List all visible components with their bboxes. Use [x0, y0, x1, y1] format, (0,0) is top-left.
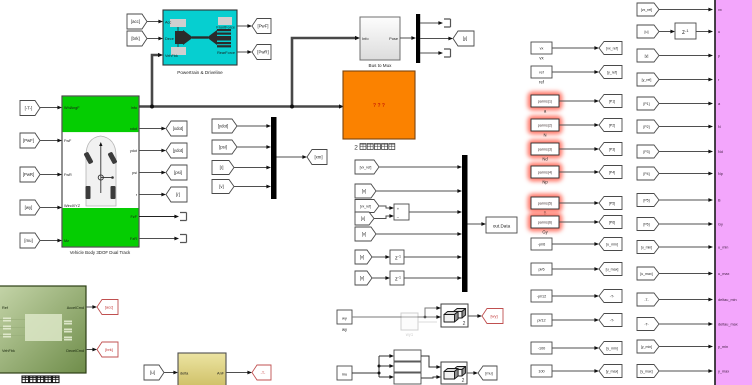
svg-text:xdot: xdot — [130, 127, 138, 131]
wire ydot — [139, 150, 162, 152]
svg-text:u_max: u_max — [718, 272, 729, 276]
from [acc] — [127, 14, 147, 29]
sum block — [394, 204, 409, 220]
unit delay z2 — [390, 271, 404, 285]
wire steer to WhlAngF — [40, 107, 58, 109]
svg-text:[wy]: [wy] — [490, 314, 497, 319]
wire demux out3 — [420, 52, 439, 54]
wire mu to rect3 — [379, 376, 390, 378]
svg-text:[acc]: [acc] — [131, 19, 140, 24]
svg-text:Nd: Nd — [542, 157, 548, 162]
svg-text:[brk]: [brk] — [131, 36, 139, 41]
block -pi/6 — [531, 238, 552, 250]
from [P3] r — [637, 145, 659, 158]
svg-text:Nd: Nd — [718, 150, 723, 154]
unit delay z1 — [390, 250, 404, 264]
wire to mux2 r2 — [376, 190, 458, 192]
terminator T4 — [180, 235, 187, 243]
svg-text:[brk]: [brk] — [105, 347, 113, 352]
block vx — [531, 42, 552, 61]
svg-text:2: 2 — [462, 378, 465, 384]
from [mu] — [20, 233, 40, 248]
wire v to z2 — [372, 277, 386, 279]
svg-text:VehFbk: VehFbk — [165, 54, 178, 58]
svg-text:parms(3): parms(3) — [538, 148, 552, 152]
wire [P3] to port Nd — [659, 151, 709, 153]
from [u_min] r — [637, 241, 659, 254]
svg-text:[xdot]: [xdot] — [173, 126, 184, 131]
block parms(2) — [528, 116, 563, 138]
goto [P3] — [599, 143, 622, 156]
wire vx to [vx_ref] — [552, 47, 595, 49]
goto [y] — [453, 31, 474, 46]
svg-text:Gy: Gy — [542, 230, 548, 235]
from [vx_ref] r — [637, 3, 659, 16]
bus wire branch to VehFbk — [152, 55, 159, 107]
svg-text:[P1]: [P1] — [609, 100, 615, 104]
from [y_ref] r — [637, 73, 659, 86]
wire v to mux1 — [234, 186, 267, 188]
svg-text:[r]: [r] — [176, 192, 180, 197]
svg-text:[wy]: [wy] — [25, 205, 33, 210]
junction dot 2 — [290, 105, 294, 109]
wire mux1 to xm — [277, 156, 304, 158]
label longitudinal controller (CJK) — [22, 376, 59, 383]
wire parms(5) to [P5] — [559, 202, 595, 204]
svg-text:[vx_ref]: [vx_ref] — [606, 47, 618, 51]
wire concat1 to wy goto — [468, 315, 478, 317]
svg-text:FzR: FzR — [130, 237, 137, 241]
goto [r] — [166, 187, 187, 202]
from [v] m4 — [355, 212, 374, 225]
svg-text:[r]: [r] — [220, 165, 224, 170]
svg-text:Np: Np — [718, 172, 723, 176]
svg-text:[y]: [y] — [463, 36, 468, 41]
from [wy] — [20, 200, 40, 215]
junction dot 1 — [150, 105, 154, 109]
block MPC (magenta) — [715, 0, 752, 385]
concat block 2 — [441, 362, 467, 384]
svg-text:vx: vx — [540, 47, 544, 51]
goto [brk] red — [97, 342, 118, 357]
goto [y_ref] — [599, 66, 622, 79]
wire [P2] to port N — [659, 126, 709, 128]
terminator T3 — [180, 213, 187, 221]
from [v] m6 — [355, 250, 372, 264]
svg-text:[P5]: [P5] — [643, 199, 649, 203]
wire pi/6 to [u_max] — [552, 268, 595, 270]
block ref — [531, 66, 552, 85]
subsystem Powertrain & Driveline — [163, 10, 237, 65]
svg-text:[vx_ref]: [vx_ref] — [360, 166, 372, 170]
svg-text:WhlAngF: WhlAngF — [64, 106, 80, 110]
svg-text:[y_min]: [y_min] — [641, 345, 652, 349]
svg-text:parms(5): parms(5) — [538, 202, 552, 206]
svg-text:AccelCmd: AccelCmd — [67, 306, 84, 310]
from [u] 2 — [144, 365, 164, 380]
from [y_max] r — [637, 365, 659, 378]
goto [psi] — [166, 165, 187, 180]
wire parms(1) to [P1] — [559, 100, 595, 102]
wire [P6] to port Gy — [659, 223, 709, 225]
concat block 1 — [441, 304, 468, 327]
goto -T- — [599, 314, 622, 327]
svg-text:Mz: Mz — [64, 239, 69, 243]
wire mu to Mz — [40, 240, 58, 242]
svg-text:Bus to Mux: Bus to Mux — [369, 63, 393, 68]
wire -100 to [y_min] — [552, 347, 595, 349]
block 2dof vehicle (orange) — [343, 71, 415, 139]
constant wy — [337, 310, 352, 324]
wire ref to [y_ref] — [552, 71, 595, 73]
from [v] m2 — [355, 184, 376, 198]
goto [xdot] — [166, 121, 187, 136]
block steering map (tan) — [178, 353, 226, 385]
goto [wy] red — [482, 309, 503, 324]
wire mux2 to outData — [468, 223, 483, 225]
svg-text:delta: delta — [180, 371, 189, 375]
block parms(1) — [528, 92, 563, 114]
terminator T2 — [444, 49, 451, 57]
block parms(4) — [528, 163, 563, 185]
ghost block wy1 — [401, 313, 437, 337]
from [ydot] 2 — [212, 119, 237, 133]
svg-text:DecelCmd: DecelCmd — [66, 349, 84, 353]
wire r to mux1 — [234, 167, 267, 169]
svg-text:N: N — [718, 125, 721, 129]
svg-text:[vx_ref]: [vx_ref] — [360, 205, 371, 209]
goto [u_min] — [599, 238, 622, 251]
svg-text:FwR: FwR — [64, 173, 72, 177]
from [u_max] r — [637, 267, 659, 280]
svg-text:Acc: Acc — [165, 20, 171, 24]
from -T- r — [637, 293, 659, 306]
goto [P1] — [599, 95, 622, 108]
svg-text:[u_max]: [u_max] — [606, 268, 619, 272]
svg-text:[v]: [v] — [362, 189, 367, 194]
svg-text:y_max: y_max — [718, 370, 729, 374]
wire -pi/12 to -T- — [552, 295, 595, 297]
wire parms(3) to [P3] — [559, 148, 595, 150]
wire u to z3 — [659, 31, 671, 33]
from [P1] r — [637, 97, 659, 110]
svg-text:[PwF]: [PwF] — [258, 24, 269, 29]
svg-text:WindXYZ: WindXYZ — [64, 204, 81, 208]
svg-text:[PwR]: [PwR] — [257, 50, 268, 55]
wire mu trunk — [352, 372, 379, 374]
svg-text:parms(4): parms(4) — [538, 171, 552, 175]
wire v to sum — [374, 216, 390, 219]
block -pi/12 — [531, 290, 552, 302]
wire PwR to FwR — [40, 174, 58, 176]
svg-text:[ydot]: [ydot] — [218, 124, 229, 129]
svg-text:[u_min]: [u_min] — [606, 243, 618, 247]
goto -T- — [599, 290, 622, 303]
svg-text:[xm]: [xm] — [314, 155, 322, 160]
svg-text:deltau_max: deltau_max — [718, 323, 738, 327]
wire Pose to demux — [400, 37, 412, 39]
from [P4] r — [637, 167, 659, 180]
wire [P4] to port Np — [659, 173, 709, 175]
svg-text:[v]: [v] — [360, 276, 365, 281]
goto [PwF] — [252, 19, 271, 34]
svg-text:[vx_ref]: [vx_ref] — [641, 8, 653, 12]
svg-text:[v]: [v] — [362, 232, 367, 237]
svg-text:[PwF]: [PwF] — [23, 138, 34, 143]
svg-text:vx: vx — [718, 8, 722, 12]
goto [P6] — [599, 216, 622, 229]
svg-text:ydot: ydot — [130, 149, 138, 153]
from [P5] r — [637, 194, 659, 207]
svg-text:[P5]: [P5] — [609, 202, 615, 206]
from [psi] 2 — [212, 140, 237, 154]
wire psi to mux1 — [237, 146, 267, 148]
wire RearForce to PwR — [237, 51, 248, 53]
svg-text:[P2]: [P2] — [609, 124, 615, 128]
block pi/6 — [531, 263, 552, 275]
svg-text:u: u — [718, 30, 720, 34]
svg-text:[y]: [y] — [645, 54, 649, 58]
junction dot mu2 — [378, 372, 381, 375]
wire z3 to port u — [696, 31, 709, 33]
wire [P1] to port a — [659, 103, 709, 105]
svg-text:[y_max]: [y_max] — [640, 370, 652, 374]
wire z2 to mux2 — [404, 277, 458, 279]
svg-text:Np: Np — [542, 180, 548, 185]
svg-text:[P3]: [P3] — [609, 148, 615, 152]
from -T- r — [637, 318, 659, 331]
svg-text:out.Data: out.Data — [493, 223, 511, 228]
wire [y] to port y — [659, 55, 709, 57]
wire rect1 to concat2 — [421, 356, 437, 367]
svg-text:FzF: FzF — [130, 215, 137, 219]
variant rect 1 — [394, 350, 421, 361]
svg-text:N: N — [543, 133, 546, 138]
wire brk to Powertrain — [147, 38, 159, 40]
svg-text:u_min: u_min — [718, 246, 728, 250]
from [-T-] steer — [20, 101, 40, 116]
goto [xm] — [307, 150, 327, 165]
svg-text:deltau_min: deltau_min — [718, 298, 737, 302]
from [u] r — [637, 25, 659, 38]
goto [acc] red — [97, 300, 118, 315]
svg-text:-pi/12: -pi/12 — [537, 295, 547, 299]
svg-text:parms(2): parms(2) — [538, 124, 552, 128]
svg-text:2: 2 — [463, 321, 466, 327]
svg-text:psi: psi — [132, 171, 137, 175]
wire [y_max] to port y_max — [659, 370, 709, 372]
junction dot mu1 — [378, 365, 381, 368]
svg-text:[P4]: [P4] — [609, 171, 615, 175]
svg-text:[v]: [v] — [219, 184, 224, 189]
svg-text:Info: Info — [131, 106, 137, 110]
svg-text:[psi]: [psi] — [174, 170, 182, 175]
svg-text:wy1: wy1 — [406, 332, 414, 337]
wire concat2 to mu goto — [467, 372, 474, 374]
goto [P4] — [599, 166, 622, 179]
wire acc to Powertrain — [147, 21, 159, 23]
wire sum to mux2 — [409, 211, 458, 213]
from [brk] — [127, 31, 147, 46]
from [v] — [212, 180, 234, 194]
wire [y_min] to port y_min — [659, 346, 709, 348]
svg-text:[P6]: [P6] — [609, 221, 615, 225]
svg-text:[P2]: [P2] — [643, 125, 649, 129]
block parms(5) — [528, 194, 563, 216]
wire psi — [139, 172, 162, 174]
wire FzR — [139, 238, 175, 240]
svg-text:Powertrain & Driveline: Powertrain & Driveline — [177, 70, 223, 75]
junction dot wy — [424, 316, 427, 319]
svg-text:FwF: FwF — [64, 139, 72, 143]
svg-text:ref: ref — [539, 80, 545, 85]
wire parms(6) to [P6] — [559, 221, 595, 223]
wire wy to concat1 — [352, 316, 437, 318]
svg-text:[u]: [u] — [150, 370, 155, 375]
from [v] m5 — [355, 227, 376, 241]
block parms(3) — [528, 140, 563, 162]
svg-text:[P6]: [P6] — [643, 223, 649, 227]
svg-text:[y_ref]: [y_ref] — [642, 78, 652, 82]
mux bar 2 — [462, 155, 468, 292]
svg-text:Dece: Dece — [165, 37, 174, 41]
wire wy to WindXYZ — [40, 207, 58, 209]
svg-text:[P3]: [P3] — [643, 150, 649, 154]
wire [y_ref] to port r — [659, 79, 709, 81]
svg-text:? ? ?: ? ? ? — [373, 103, 385, 109]
svg-text:[mu]: [mu] — [24, 238, 32, 243]
variant rect 3 — [394, 373, 421, 384]
svg-text:VehFbk: VehFbk — [2, 349, 15, 353]
wire mu to rect2 — [379, 365, 390, 367]
svg-text:[y_ref]: [y_ref] — [607, 71, 617, 75]
svg-text:y_min: y_min — [718, 345, 728, 349]
wire DecelCmd to brk — [86, 349, 93, 351]
wire vxref to sum — [379, 206, 390, 208]
wire to mux2 r1 — [379, 166, 458, 168]
wire -T- to port deltau_min — [659, 299, 709, 301]
svg-text:100: 100 — [538, 370, 544, 374]
from [y] r — [637, 49, 659, 62]
from [P6] r — [637, 218, 659, 231]
from [PwF] 2 — [20, 133, 40, 148]
terminator T1 — [444, 19, 451, 27]
from [v] m7 — [355, 271, 372, 285]
svg-text:[y_max]: [y_max] — [606, 370, 619, 374]
svg-text:AnF: AnF — [217, 371, 225, 375]
goto [u_max] — [599, 263, 622, 276]
unit delay z3 — [675, 23, 696, 39]
svg-text:Pose: Pose — [389, 36, 398, 41]
wire to mux2 r4 — [376, 233, 458, 235]
from [r] 2 — [212, 161, 234, 175]
svg-text:[u]: [u] — [645, 30, 649, 34]
wire demux out1 — [420, 22, 439, 24]
from [y_min] r — [637, 340, 659, 353]
subsystem longitudinal controller — [0, 286, 86, 373]
from [P2] r — [637, 120, 659, 133]
from [PwR] 2 — [20, 167, 40, 182]
bus wire branch to BusToMux — [292, 38, 356, 107]
constant mu — [337, 366, 352, 380]
svg-text:[u_min]: [u_min] — [641, 246, 653, 250]
wire ydot to mux1 — [237, 125, 267, 127]
svg-text:[-T-]: [-T-] — [25, 106, 33, 111]
goto [P5] — [599, 197, 622, 210]
wire PwF to FwF — [40, 140, 58, 142]
svg-text:Vehicle Body 3DOF Dual Track: Vehicle Body 3DOF Dual Track — [70, 250, 131, 255]
goto [vx_ref] — [599, 42, 622, 55]
wire FrontForce to PwF — [237, 25, 248, 27]
wire mu to rect1 — [379, 355, 390, 357]
svg-text:y: y — [718, 54, 720, 58]
wire rect3 to concat2 — [421, 377, 437, 378]
wire xdot — [139, 128, 162, 130]
svg-text:2: 2 — [354, 145, 358, 152]
svg-text:[u_max]: [u_max] — [640, 272, 652, 276]
wire demux out2 — [420, 38, 449, 40]
from [vx_ref] m3 — [355, 200, 379, 213]
svg-text:[mu]: [mu] — [485, 372, 492, 376]
svg-text:[PwR]: [PwR] — [23, 172, 34, 177]
svg-text:Info: Info — [362, 36, 369, 41]
demux bar top — [416, 14, 420, 63]
svg-text:parms(6): parms(6) — [538, 221, 552, 225]
wire [u_max] to port u_max — [659, 273, 709, 275]
goto [y_min] — [599, 342, 622, 355]
wire wy branch up — [425, 308, 437, 317]
block 100 — [531, 365, 552, 377]
wire u to delta — [164, 372, 174, 374]
wire AnF to red goto — [226, 372, 248, 374]
svg-text:pi/12: pi/12 — [537, 319, 545, 323]
from [vx_ref] m1 — [355, 160, 379, 174]
svg-text:[y_min]: [y_min] — [606, 347, 618, 351]
svg-text:RearForce: RearForce — [217, 51, 235, 55]
wire r — [139, 194, 162, 196]
goto [mu] 2 — [478, 366, 497, 380]
goto [ydot] — [166, 143, 187, 158]
svg-text:[ydot]: [ydot] — [173, 148, 184, 153]
svg-text:mu: mu — [342, 372, 348, 377]
wire [P5] to port B — [659, 199, 709, 201]
svg-text:FrontForce: FrontForce — [216, 25, 235, 29]
block -100 — [531, 342, 552, 354]
svg-text:[psi]: [psi] — [219, 145, 227, 150]
goto [PwR] — [252, 45, 271, 60]
bus wire Info main — [139, 105, 340, 108]
svg-text:[P4]: [P4] — [643, 172, 649, 176]
wire parms(2) to [P2] — [559, 124, 595, 126]
svg-text:wy: wy — [342, 316, 347, 321]
svg-text:pi/6: pi/6 — [538, 268, 544, 272]
wire parms(4) to [P4] — [559, 171, 595, 173]
svg-text:[v]: [v] — [360, 255, 365, 260]
svg-text:Gy: Gy — [718, 223, 723, 227]
block pi/12 — [531, 314, 552, 326]
goto [-T-] red — [252, 365, 271, 380]
wire pi/12 to -T- — [552, 319, 595, 321]
mux bar 1 — [271, 117, 277, 199]
wire AccelCmd to acc — [86, 306, 93, 308]
wire v to z1 — [372, 256, 386, 258]
wire 100 to [y_max] — [552, 370, 595, 372]
variant rect 2 — [394, 362, 421, 372]
svg-text:[acc]: [acc] — [105, 305, 113, 310]
to-workspace out.Data — [486, 217, 517, 233]
block parms(6) — [528, 213, 563, 235]
wire FzF — [139, 216, 175, 218]
